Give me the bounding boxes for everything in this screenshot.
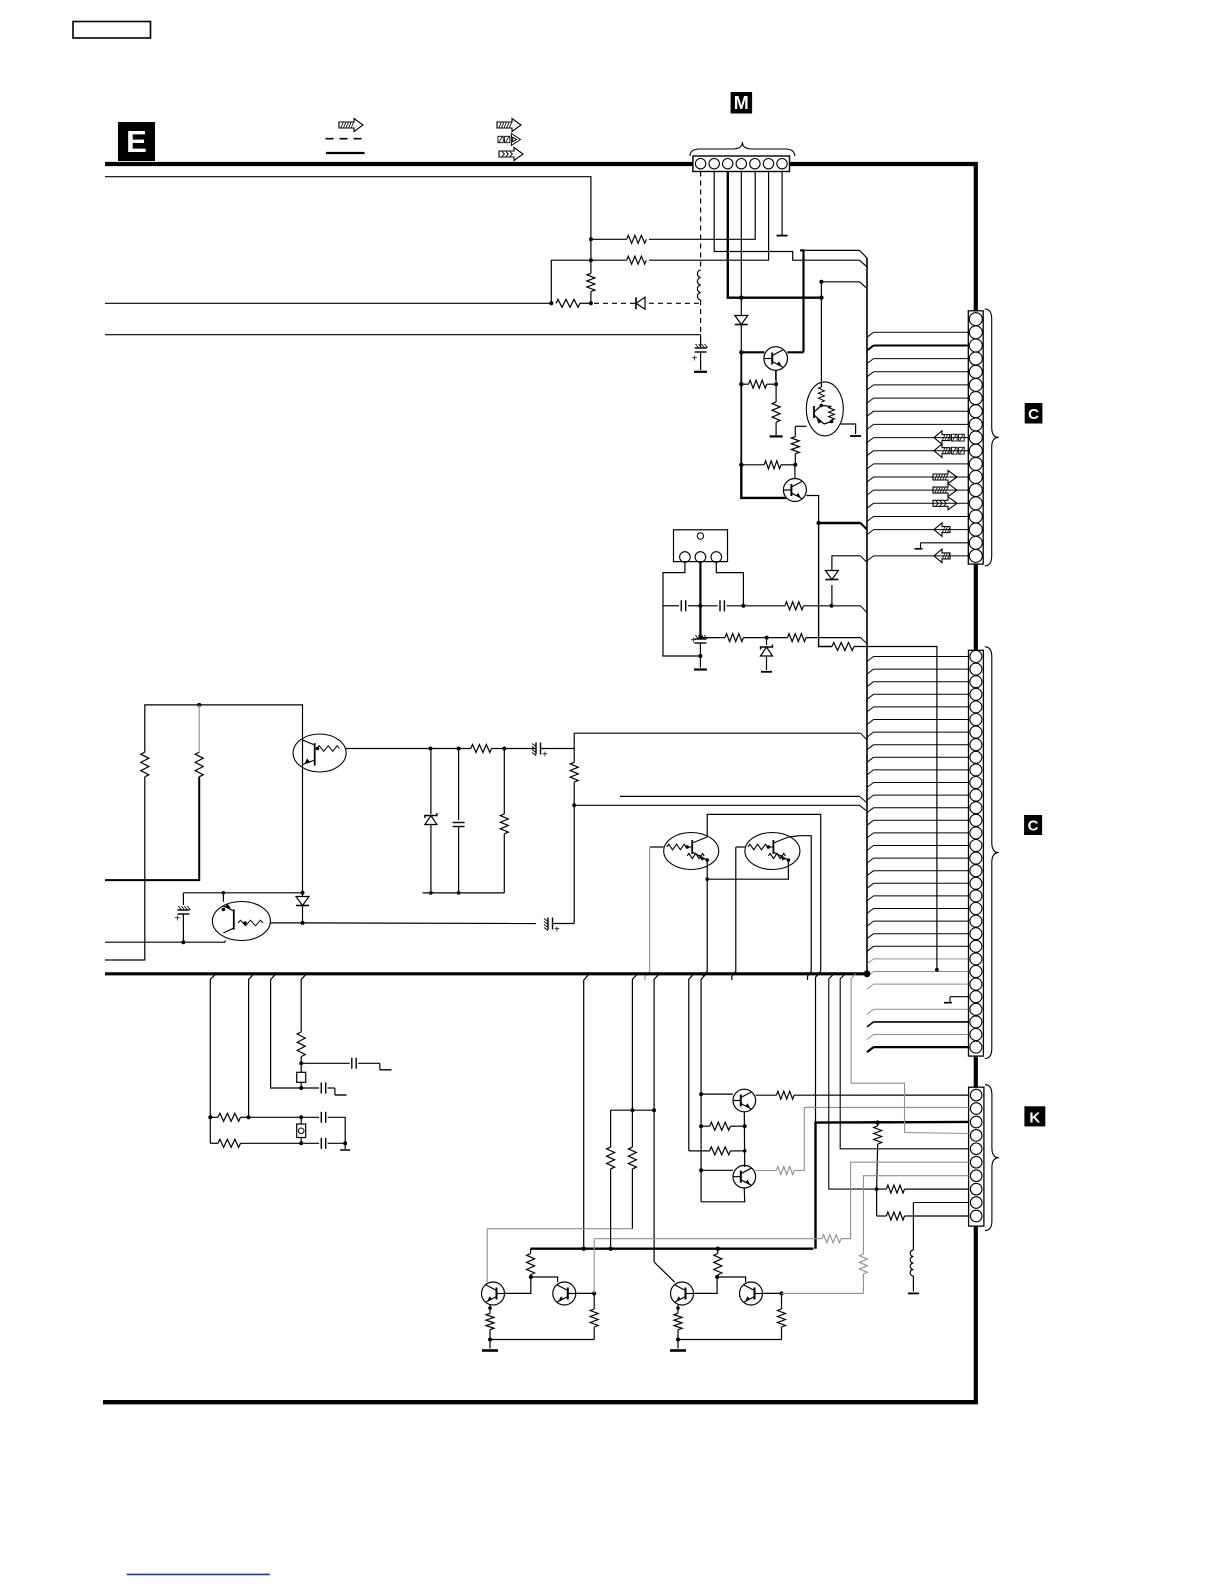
wire 936 resnet [819,523,832,647]
bus entry diagonal 5 [861,556,868,563]
junction zd2 bottom [429,891,433,895]
wire C2 pin26 [867,972,874,977]
wire dashed node to diode [594,302,636,304]
wire reg row2 [700,637,725,639]
wire dashed diode to pin1 [649,302,701,304]
junction rail 199 [197,703,201,707]
wire rail 796 [620,795,860,797]
junction pin3/diode [739,296,743,300]
wire to ground Q6 [775,422,777,436]
wire Q4 out right [270,922,302,924]
arrow out C1 pin13 [933,471,957,484]
wire rail mid [105,302,551,304]
connector C2 pins [970,651,982,663]
resistor R_x2 [210,1116,218,1118]
resistor R_e2 [772,402,780,422]
wire cap d out [328,1142,346,1144]
digital transistor Q4 [212,902,270,941]
resonator X1 [297,1072,306,1082]
wire 574 to 805 [573,782,575,805]
wire 210 down [209,1117,211,1143]
junction node V2 [589,258,593,262]
capacitor C_x2 [320,1083,322,1094]
wire drop 654 [654,974,675,1282]
wire C2 pin22 [867,921,874,926]
junction q3 748 b [457,747,461,751]
wire C2 pin20 [867,896,874,901]
connector C1 pins [969,313,982,326]
wire cap row c [301,1116,319,1118]
wire Q6 collector [787,351,803,353]
wire base Q6 [741,351,764,353]
resistor R_v [587,273,595,291]
wire T2 collector grey [756,1170,777,1172]
wire 748 seg6 [541,748,574,750]
resistor R_o [785,602,803,610]
resistor R_r2 [788,634,807,642]
transistor T1 [733,1089,756,1112]
wire C_reg down [699,643,701,668]
transistor Q7 [783,479,806,502]
capacitor C_sh [458,749,460,821]
wire thick 1249 [531,1247,814,1249]
wire R_m5 left [591,238,627,240]
junction 701/1094 [699,1092,703,1096]
wire 199 down grey [198,705,200,752]
resistor R_l2 [195,752,203,777]
wire 610 down [610,1110,612,1147]
wire Q6 collector up [800,250,803,352]
wire grey K6 [841,1162,969,1239]
svg-text:+: + [690,636,696,647]
wire T4 base [576,1292,594,1294]
wire IC pin1 [663,562,700,656]
wire C2 pin15 [867,833,874,838]
connector M box [693,156,790,172]
junction 248/1117 [247,1115,251,1119]
wire emitter node [775,370,777,402]
wire C1 pin15 [867,503,874,508]
ground bus thick [105,972,867,975]
bus entry diagonal 3 [861,523,868,530]
connector C2 box [969,650,984,1056]
ground L2 [908,1292,919,1294]
resistor R_m5 [627,235,647,243]
junction thick 877 [876,1120,880,1124]
wire R_rail right [580,302,591,304]
wire drop 301 [301,974,306,1032]
wire T2 emitter [701,1188,745,1202]
wire C1 pin5 [867,372,874,377]
svg-text:+: + [692,354,698,365]
svg-text:+: + [174,914,180,925]
wire M pin5 [649,172,755,240]
brace C2 [985,647,999,1059]
wire 574 random seg [573,750,575,763]
wire cap row b [301,1087,319,1089]
resistor R_t3b [527,1254,535,1275]
wire M pin4 [740,172,742,298]
wire C1 pin6 [867,385,874,390]
wire em rail 1 [490,1339,594,1341]
resistor R_x1 [297,1032,305,1057]
bus main vertical [866,258,868,974]
frame bottom border [103,1400,978,1404]
junction 821 rail [819,280,823,284]
wire corner 551 [551,260,591,303]
transistor T3 [482,1282,505,1305]
junction T6 base [780,1291,784,1295]
wire drop 249 [249,974,254,1118]
zener ZD1 [766,638,768,645]
wire K9 [913,1202,968,1204]
wire Q5 top [820,382,822,387]
title box [73,22,151,39]
wire R_b2 left [741,464,764,466]
junction Q6 emitter [774,382,778,386]
junction row2 mid [765,636,769,640]
junction q4 rail [222,891,226,895]
wire M pin2 [714,172,859,261]
ground IC [694,668,707,670]
wire drop 701 [701,974,706,1202]
junction rn grey [935,968,939,972]
junction 701/1126 [699,1124,703,1128]
svg-text:M: M [734,93,749,113]
wire C1 pin12 [867,464,874,469]
wire C2 pin17 [867,858,874,863]
wire C1 pin16 [867,517,874,522]
inductor L1 [697,270,700,300]
legend dashed line [326,138,363,140]
zener ZD2 [425,816,437,825]
resistor R_q7 [791,437,799,454]
stub cap b [328,1087,335,1089]
wire Q2 collector [788,836,811,980]
junction osc mid [698,604,702,608]
wire osc right [803,605,831,607]
diode D_dash [636,297,645,309]
wire C2 pin3 [867,682,874,687]
wire diode up [832,556,861,571]
junction Q7 base node [793,463,797,467]
wire T3 base [505,1277,531,1293]
ground Q5 [850,435,861,437]
resistor R_t4e [593,1327,595,1340]
wire Q3 out right [346,748,430,750]
junction 717/1249 [716,1247,720,1251]
wire q4 top link [222,893,224,902]
transistor T2 [733,1165,756,1188]
resistor R_rn [832,643,854,651]
wire C2 pin11 [867,783,874,788]
wire C2 pin6 [867,720,874,725]
wire T6 base [763,1292,782,1294]
wire C1 pin3 [867,346,874,351]
junction R_e1 left [739,382,743,386]
wire 574 to 923 [573,805,575,923]
connector C1 box [968,311,983,564]
wire top right link [800,249,859,251]
arrow in C1 pin17 [934,523,950,537]
junction rail mid [549,301,553,305]
wire T5 base [694,1277,718,1293]
junction 739/465 [739,463,743,467]
wire 877 lower [876,1189,878,1216]
junction rail805/574 [572,803,576,807]
wire Q7 emitter right [806,496,818,524]
resonator X2 [297,1124,306,1138]
resistor R_t5e [674,1313,682,1329]
capacitor C_923 polarized [547,918,549,930]
wire rail 923 b [553,923,574,925]
wire x2 pins [300,1117,302,1124]
wire C2 pin2 [867,669,874,674]
wire T5 gnd [677,1330,679,1349]
wire drop 211 [210,974,216,1118]
wire Q5 base out [795,425,806,427]
junction 301/1143 [299,1141,303,1145]
wire C_q4 down [182,914,184,942]
junction Q1 emitter down [705,877,709,881]
resistor R_t1 [776,1091,794,1099]
wire V2 down [590,260,592,273]
wire C1 pin10 [867,438,874,443]
junction 818/523 [816,521,820,525]
junction 345/1143 [343,1141,347,1145]
svg-text:C: C [1028,406,1039,423]
wire C2 pin28 stub [950,996,969,998]
wire C1 pin19 [867,556,874,561]
label C lower [1024,815,1042,835]
connector K box [969,1087,984,1226]
junction C_reg gnd [698,654,702,658]
digital transistor Q1 [664,833,719,870]
wire C2 pin8 [867,745,874,750]
regulator IC U1 [674,530,728,562]
capacitor C_o2 [719,600,721,611]
wire cap row a [301,1062,350,1064]
wire C2 pin32 [867,1047,874,1052]
junction 583/1249 [582,1247,586,1251]
bus entry diagonal 6 [861,638,868,644]
wire C2 pin31 [867,1035,874,1040]
connector K pins [970,1089,982,1101]
wire Q3 base down [302,762,304,892]
resistor R_sh [503,749,505,815]
wire C2 pin9 [867,757,874,762]
wire drop 688 [689,974,694,1151]
wire thick to bus [819,522,861,524]
wire cap row d [301,1142,319,1144]
junction 654/1110 [652,1108,656,1112]
junction bus/ground bus [864,970,871,977]
wire xtal node b [300,1082,302,1088]
wire to node V3 [590,292,592,304]
diode D3 [302,893,304,896]
wire C2 pin18 [867,871,874,876]
wire Q4 base left [182,893,184,905]
legend solid line [326,152,365,154]
ground Q6 [770,435,783,437]
svg-text:K: K [1029,1109,1040,1126]
junction q3 748 a [428,747,432,751]
wire emitters down [703,879,707,976]
junction 183/942 [181,940,185,944]
wire C2 pin7 [867,732,874,737]
wire R_e1 right [767,383,776,385]
junction 701/1170 [699,1168,703,1172]
wire 748 seg5 [504,748,536,750]
wire K1 feed [794,1094,969,1096]
wire M pin6 [649,172,769,261]
IC pins [680,552,691,563]
reference mark blue [127,1573,270,1575]
capacitor C_o1 [680,600,682,611]
junction node V3 [589,301,593,305]
junction 678/1339 [676,1338,680,1342]
wire T3 base R [530,1249,532,1254]
junction pin3 node [741,604,745,608]
brace over connector M [690,142,795,156]
wire T1 base [701,1093,733,1095]
bus entry diagonal [859,260,867,267]
wire C1 pin11 [867,451,874,456]
svg-text:+: + [554,925,560,936]
junction c_sh bottom [457,891,461,895]
wire drop 584 [584,974,589,1248]
transistor T6 [740,1282,763,1305]
resistor R_t3 [689,1150,710,1152]
resistor R_t2 [701,1125,710,1127]
wire xtal node a [300,1057,302,1073]
wire T3 emitter [489,1305,491,1313]
junction node V1 [589,237,593,241]
wire 748 seg2 [430,748,458,750]
wire top rail [105,177,591,240]
wire T2 base [701,1169,733,1171]
wire 821 vertical [820,282,822,382]
wire T6 base node [781,1293,783,1309]
wire C2 pin19 [867,883,874,888]
wire diode branch [831,585,833,606]
wire Z wire 733 [574,732,860,734]
digital transistor Q2 [745,833,800,870]
resistor R_b2 [764,461,781,469]
arrow in C1 pin11 [934,444,950,458]
legend arrow chevrons [499,148,523,161]
digital transistor Q3 [293,734,346,772]
diode D2 [825,571,838,580]
legend arrow squares [498,136,503,142]
wire C2 pin1 [867,657,874,662]
junction T4 base [592,1291,596,1295]
wire V1-V2 segment [590,239,592,260]
junction T5 em [676,1306,680,1310]
wire R_l1 down [105,777,145,960]
junction K8 877 [875,1187,879,1191]
wire Q1 base down grey [645,847,650,980]
wire C2 pin16 [867,846,874,851]
resistor R_t5b [714,1254,722,1275]
arrow in C1 pin19 [934,549,950,563]
wire Q1 emitter [707,860,788,879]
bus entry diagonal 9 [860,796,868,803]
wire C2 pin21 [867,909,874,914]
label C upper [1025,403,1043,424]
wire gnd rail 893 [423,892,505,894]
resistor R_l1 [141,752,149,777]
transistor Q6 [764,347,788,371]
wire M pin7 nc [781,172,783,236]
junction 632/1110 [630,1108,634,1112]
junction D1 base [739,350,743,354]
inductor L2 [912,1203,914,1251]
wire Q1 base [650,846,664,848]
capacitor C_x3 [320,1112,322,1123]
junction T3 base node [529,1275,533,1279]
wire rail 281 [821,281,859,283]
connector M pins [695,159,705,169]
wire T5 base R [717,1249,719,1254]
wire osc row [663,605,679,607]
resistor R_rail [556,299,580,307]
ground M pin1 [694,371,707,373]
junction xtal a [299,1061,303,1065]
wire rail 335 [105,334,701,336]
wire C2 pin29 [867,1009,874,1014]
bus entry diagonal 7 [860,805,868,811]
frame right border [974,162,978,312]
resistor R_t4 grey [776,1167,794,1175]
junction osc right [830,604,834,608]
junction 302/893 [301,891,305,895]
wire 574 vertical top [573,733,575,750]
junction 744/1126 [743,1124,747,1128]
wire C1 pin14 [867,490,874,495]
junction 490/1339 [488,1338,492,1342]
wire 345 gnd [344,1143,346,1149]
transistor T5 [671,1282,694,1305]
resistor R_grey [822,1235,841,1243]
resistor R_t3e [486,1313,494,1329]
bus entry diagonal b [860,282,868,289]
wire Q1 collector jog [816,971,821,1122]
wire Q1 collector [707,814,821,971]
resistor R_632 [628,1147,636,1169]
legend arrow hatched 2 [497,119,521,132]
wire drop 271 [271,974,302,1088]
resistor R_m6 [627,256,647,264]
wire 610 rail [611,1109,655,1111]
resistor R_r1 [725,634,743,642]
bus entry diagonal 2 [860,250,868,258]
wire C2 pin10 [867,770,874,775]
arrow out C1 pin14 [933,484,957,497]
wire Q6 emitter [775,370,777,380]
wire C2 pin30 [867,1022,874,1027]
wire grey 1239 [594,1238,822,1240]
wire M pin1 dashed [700,172,702,271]
capacitor C_x4 [320,1138,322,1149]
wire C1 pin18 stub [921,542,969,544]
bus entry diagonal 8 [861,733,868,740]
wire C2 pin4 [867,694,874,699]
junction row2 left [698,636,702,640]
transistor T4 [553,1282,576,1305]
junction 302/923 [301,921,305,925]
wire C2 pin5 [867,707,874,712]
